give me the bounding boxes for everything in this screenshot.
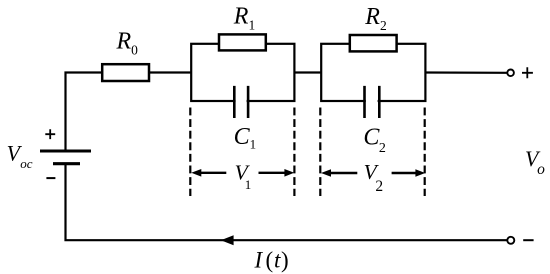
svg-text:I: I [254,247,264,272]
svg-text:(: ( [266,247,274,272]
svg-text:): ) [281,247,289,272]
svg-text:t: t [274,247,281,272]
